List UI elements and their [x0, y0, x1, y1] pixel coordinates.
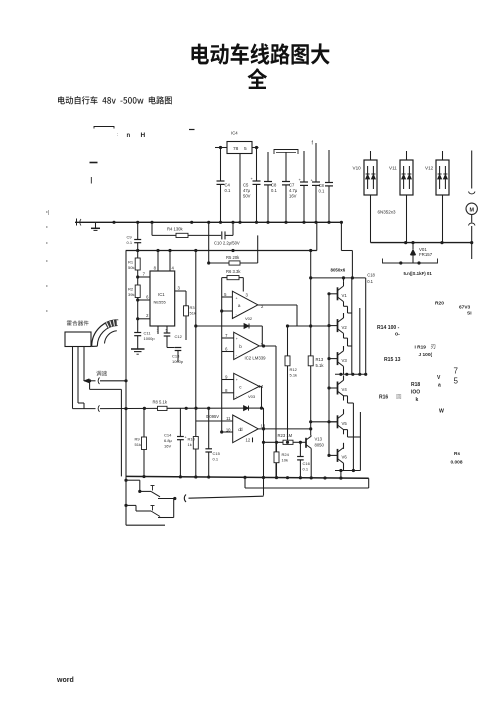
- svg-text:V10: V10: [353, 166, 362, 171]
- svg-text:0.1: 0.1: [303, 466, 309, 471]
- svg-text:5.1k: 5.1k: [290, 373, 298, 378]
- svg-text:0.008: 0.008: [451, 460, 463, 466]
- svg-text:V01: V01: [419, 247, 427, 252]
- svg-text:R14 100 -: R14 100 -: [377, 325, 400, 331]
- svg-text:H: H: [141, 132, 146, 139]
- svg-text:o-: o-: [395, 332, 400, 338]
- svg-text:1k: 1k: [188, 442, 192, 447]
- svg-text:V5: V5: [342, 421, 348, 426]
- svg-text:1000p: 1000p: [172, 359, 184, 364]
- svg-text:0.1: 0.1: [127, 240, 133, 245]
- svg-text:5.1k: 5.1k: [316, 363, 325, 368]
- svg-text:67V3: 67V3: [459, 305, 471, 311]
- svg-text:1000p: 1000p: [144, 336, 156, 341]
- svg-text:R15 13: R15 13: [384, 357, 401, 363]
- svg-text:C13: C13: [172, 354, 180, 359]
- svg-text:C8: C8: [319, 183, 325, 188]
- svg-text:C16: C16: [303, 461, 311, 466]
- svg-text:+: +: [236, 297, 238, 301]
- svg-text:C9: C9: [127, 235, 133, 240]
- svg-text:8050x6: 8050x6: [331, 268, 346, 273]
- svg-text:50V: 50V: [243, 193, 251, 198]
- svg-text:IOO: IOO: [411, 390, 420, 396]
- svg-text:IC4: IC4: [231, 131, 238, 136]
- svg-text:R18: R18: [411, 382, 420, 388]
- svg-text:0.1: 0.1: [225, 188, 231, 193]
- svg-text:C4: C4: [225, 183, 231, 188]
- svg-text:R13: R13: [316, 357, 324, 362]
- svg-text:V4: V4: [342, 387, 348, 392]
- svg-text:V03: V03: [248, 394, 256, 399]
- svg-text:10: 10: [226, 428, 231, 433]
- svg-text:11: 11: [226, 416, 231, 421]
- svg-text:R2: R2: [128, 287, 134, 292]
- svg-text:R10: R10: [188, 437, 196, 442]
- svg-text:+: +: [236, 378, 238, 382]
- svg-text:R12: R12: [290, 367, 298, 372]
- svg-text:W: W: [439, 409, 444, 415]
- svg-text:4.7μ: 4.7μ: [289, 188, 298, 193]
- svg-text:0.1: 0.1: [367, 279, 373, 284]
- svg-text:39k: 39k: [128, 292, 134, 297]
- svg-text:M: M: [469, 207, 474, 213]
- svg-text:R9: R9: [135, 437, 141, 442]
- svg-text:51k: 51k: [190, 310, 196, 315]
- svg-text:5: 5: [244, 146, 247, 152]
- svg-text:C15: C15: [213, 451, 221, 456]
- svg-text:NE555: NE555: [154, 300, 167, 305]
- svg-text:IC2 LM339: IC2 LM339: [245, 356, 267, 361]
- svg-text:0.1: 0.1: [271, 188, 277, 193]
- svg-text:C12: C12: [175, 334, 183, 339]
- svg-text:V13: V13: [315, 437, 323, 442]
- svg-text:78: 78: [233, 146, 239, 152]
- svg-text:16V: 16V: [289, 193, 297, 198]
- svg-text:C11: C11: [144, 331, 152, 336]
- svg-text:V02: V02: [245, 316, 253, 321]
- svg-text:R3: R3: [190, 305, 196, 310]
- svg-text:I: I: [90, 176, 93, 187]
- svg-text::: :: [117, 132, 118, 137]
- svg-text:7: 7: [454, 367, 459, 376]
- svg-text:51k: 51k: [135, 442, 141, 447]
- svg-text:V3: V3: [342, 358, 348, 363]
- svg-text:0.095V: 0.095V: [206, 414, 219, 419]
- svg-text:a: a: [238, 303, 241, 308]
- svg-text:R23 1M: R23 1M: [278, 433, 293, 438]
- svg-text:I R19: I R19: [415, 345, 427, 351]
- svg-text:J 100(: J 100(: [419, 352, 433, 358]
- svg-text:Rs: Rs: [454, 451, 460, 457]
- svg-text:IC1: IC1: [158, 292, 165, 297]
- svg-text:C18: C18: [367, 273, 375, 278]
- svg-text:V11: V11: [389, 166, 397, 171]
- svg-text:C8: C8: [271, 183, 277, 188]
- svg-text:C7: C7: [289, 183, 295, 188]
- svg-text:V1: V1: [342, 293, 348, 298]
- svg-text:C14: C14: [164, 433, 172, 438]
- svg-text:6.8μ: 6.8μ: [164, 438, 173, 443]
- svg-text:R8 5.1k: R8 5.1k: [153, 400, 168, 405]
- svg-text:12: 12: [246, 438, 251, 443]
- svg-text:V2: V2: [342, 325, 348, 330]
- svg-text:+: +: [236, 337, 238, 341]
- svg-text:R6 3.3k: R6 3.3k: [226, 269, 241, 274]
- svg-text:0.1: 0.1: [319, 188, 325, 193]
- svg-text:SI: SI: [467, 311, 472, 317]
- svg-text:d: d: [240, 427, 243, 432]
- svg-text:16V: 16V: [164, 443, 171, 448]
- svg-text:V12: V12: [425, 166, 434, 171]
- svg-text:R20: R20: [435, 301, 444, 307]
- svg-text:b: b: [239, 344, 242, 349]
- svg-text:R1: R1: [128, 260, 134, 265]
- svg-text:50k: 50k: [128, 265, 134, 270]
- svg-text:C10 2.2μ/50V: C10 2.2μ/50V: [214, 241, 240, 246]
- svg-text:k: k: [416, 397, 419, 403]
- svg-text:0.1: 0.1: [213, 456, 219, 461]
- svg-text:R5 20k: R5 20k: [226, 255, 240, 260]
- svg-text:R16: R16: [379, 395, 388, 401]
- svg-text:FR157: FR157: [419, 252, 433, 257]
- svg-text:47μ: 47μ: [243, 188, 251, 193]
- svg-text:C5: C5: [243, 183, 249, 188]
- svg-text:n: n: [127, 133, 131, 139]
- svg-text:a: a: [438, 383, 441, 389]
- svg-text:5: 5: [454, 377, 459, 386]
- svg-text:6N352x3: 6N352x3: [378, 210, 397, 215]
- svg-text:R4 130k: R4 130k: [167, 227, 184, 232]
- svg-text:8050: 8050: [315, 443, 325, 448]
- svg-text:5.n(|S.1kF) 01: 5.n(|S.1kF) 01: [404, 271, 433, 276]
- svg-text:R24: R24: [282, 452, 290, 457]
- svg-text:word: word: [56, 677, 74, 684]
- svg-text:10k: 10k: [282, 457, 288, 462]
- svg-text:V6: V6: [342, 455, 348, 460]
